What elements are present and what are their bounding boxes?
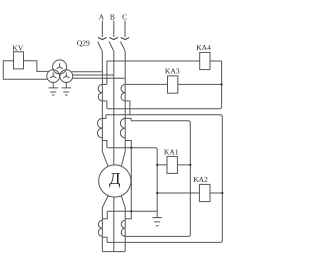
wire KA1 feed line	[107, 148, 157, 218]
relay KV coil	[14, 52, 24, 69]
wire star point bar	[102, 251, 125, 253]
current transformer TA3 left secondary humps	[98, 220, 102, 236]
junction KA2 right	[221, 192, 223, 194]
current transformer TA2 right secondary humps	[120, 118, 125, 137]
ground relay return	[152, 218, 162, 226]
motor M lead-out diagonals	[102, 196, 125, 208]
switch blade Q29 phase B	[109, 42, 114, 52]
junction KA1 left	[156, 164, 158, 166]
svg-text:KA1: KA1	[164, 147, 179, 156]
wire TA2 left bottom staircase	[102, 141, 107, 148]
current transformer TA3 right secondary humps	[121, 220, 125, 236]
switch blade Q29 phase C	[121, 42, 126, 52]
wire phase C bus	[124, 51, 126, 151]
wire TA1 left bottom staircase	[102, 101, 107, 109]
wire TA2 right top step to KA1 branch	[125, 118, 190, 236]
relay KA1 coil	[167, 156, 177, 173]
arrowhead phase B	[110, 38, 119, 40]
wire lower CT return	[107, 210, 157, 212]
svg-text:KA2: KA2	[193, 175, 208, 184]
wire phase A bus	[101, 51, 103, 151]
wire KA4 riser to CT1	[106, 61, 108, 84]
wire TA3 right top step	[125, 211, 131, 218]
ground TV right	[62, 83, 72, 95]
voltage transformer TV left winding	[47, 70, 60, 83]
svg-text:A: A	[99, 13, 105, 22]
relay KA2 coil	[199, 184, 210, 201]
wire KA4 line	[107, 60, 222, 62]
motor M lead-in diagonals	[102, 152, 125, 167]
wire phase B lower	[113, 197, 115, 251]
arrowhead phase C	[121, 38, 130, 40]
junction KA3-bus	[220, 83, 222, 85]
svg-text:KA3: KA3	[165, 67, 180, 76]
wire phase A lower	[101, 208, 103, 252]
current transformer TA1 left secondary humps	[98, 84, 102, 101]
wire TA1 left top step	[102, 83, 107, 85]
switch blade Q29 phase A	[98, 42, 103, 52]
wire TA3 left top step	[102, 211, 107, 218]
svg-text:Д: Д	[109, 169, 120, 188]
svg-text:B: B	[110, 13, 115, 22]
svg-text:Q29: Q29	[77, 38, 90, 47]
wire KV left loop	[3, 61, 47, 80]
junction TA2 right on KA1 feed	[130, 147, 132, 149]
junction KA1 right	[189, 164, 191, 166]
wire phase B lead-in	[113, 21, 115, 38]
wire TA2 left top step	[102, 115, 106, 119]
motor M circle	[99, 165, 131, 197]
wire TV to phase B	[73, 74, 114, 76]
svg-text:C: C	[122, 13, 127, 22]
ground TV left	[49, 83, 59, 95]
junction lower return	[130, 210, 132, 212]
wire TV to phase A	[71, 71, 102, 73]
svg-text:KA4: KA4	[196, 43, 211, 52]
wire mid vertical to lower junction	[130, 148, 132, 212]
arrowhead phase A	[98, 38, 107, 40]
svg-text:KV: KV	[12, 44, 23, 53]
wire phase C lead-in	[124, 21, 126, 38]
relay KA4 coil	[200, 52, 210, 69]
current transformer TA2 left secondary humps	[97, 118, 102, 137]
wire KA3 line	[125, 83, 221, 85]
wire TA2 right bottom staircase	[125, 141, 131, 148]
wire phase C lower	[124, 208, 126, 252]
wire KA2 line	[157, 192, 222, 194]
wire TA3 left bottom staircase	[102, 237, 107, 242]
junction KA2 left	[156, 192, 158, 194]
voltage transformer TV right winding	[60, 70, 73, 83]
wire TA1 right bottom step	[125, 101, 130, 115]
wire KV right link	[24, 61, 49, 72]
wire phase B bus	[113, 51, 115, 165]
relay KA3 coil	[168, 76, 178, 93]
wire TV to phase C	[73, 77, 126, 79]
current transformer TA1 right secondary humps	[121, 84, 125, 101]
wire KA1 line	[157, 164, 190, 166]
wire right bus upper	[107, 61, 222, 109]
wire phase A lead-in	[101, 21, 103, 38]
wire mid return to right bus	[106, 115, 222, 243]
voltage transformer TV top winding	[53, 60, 67, 74]
